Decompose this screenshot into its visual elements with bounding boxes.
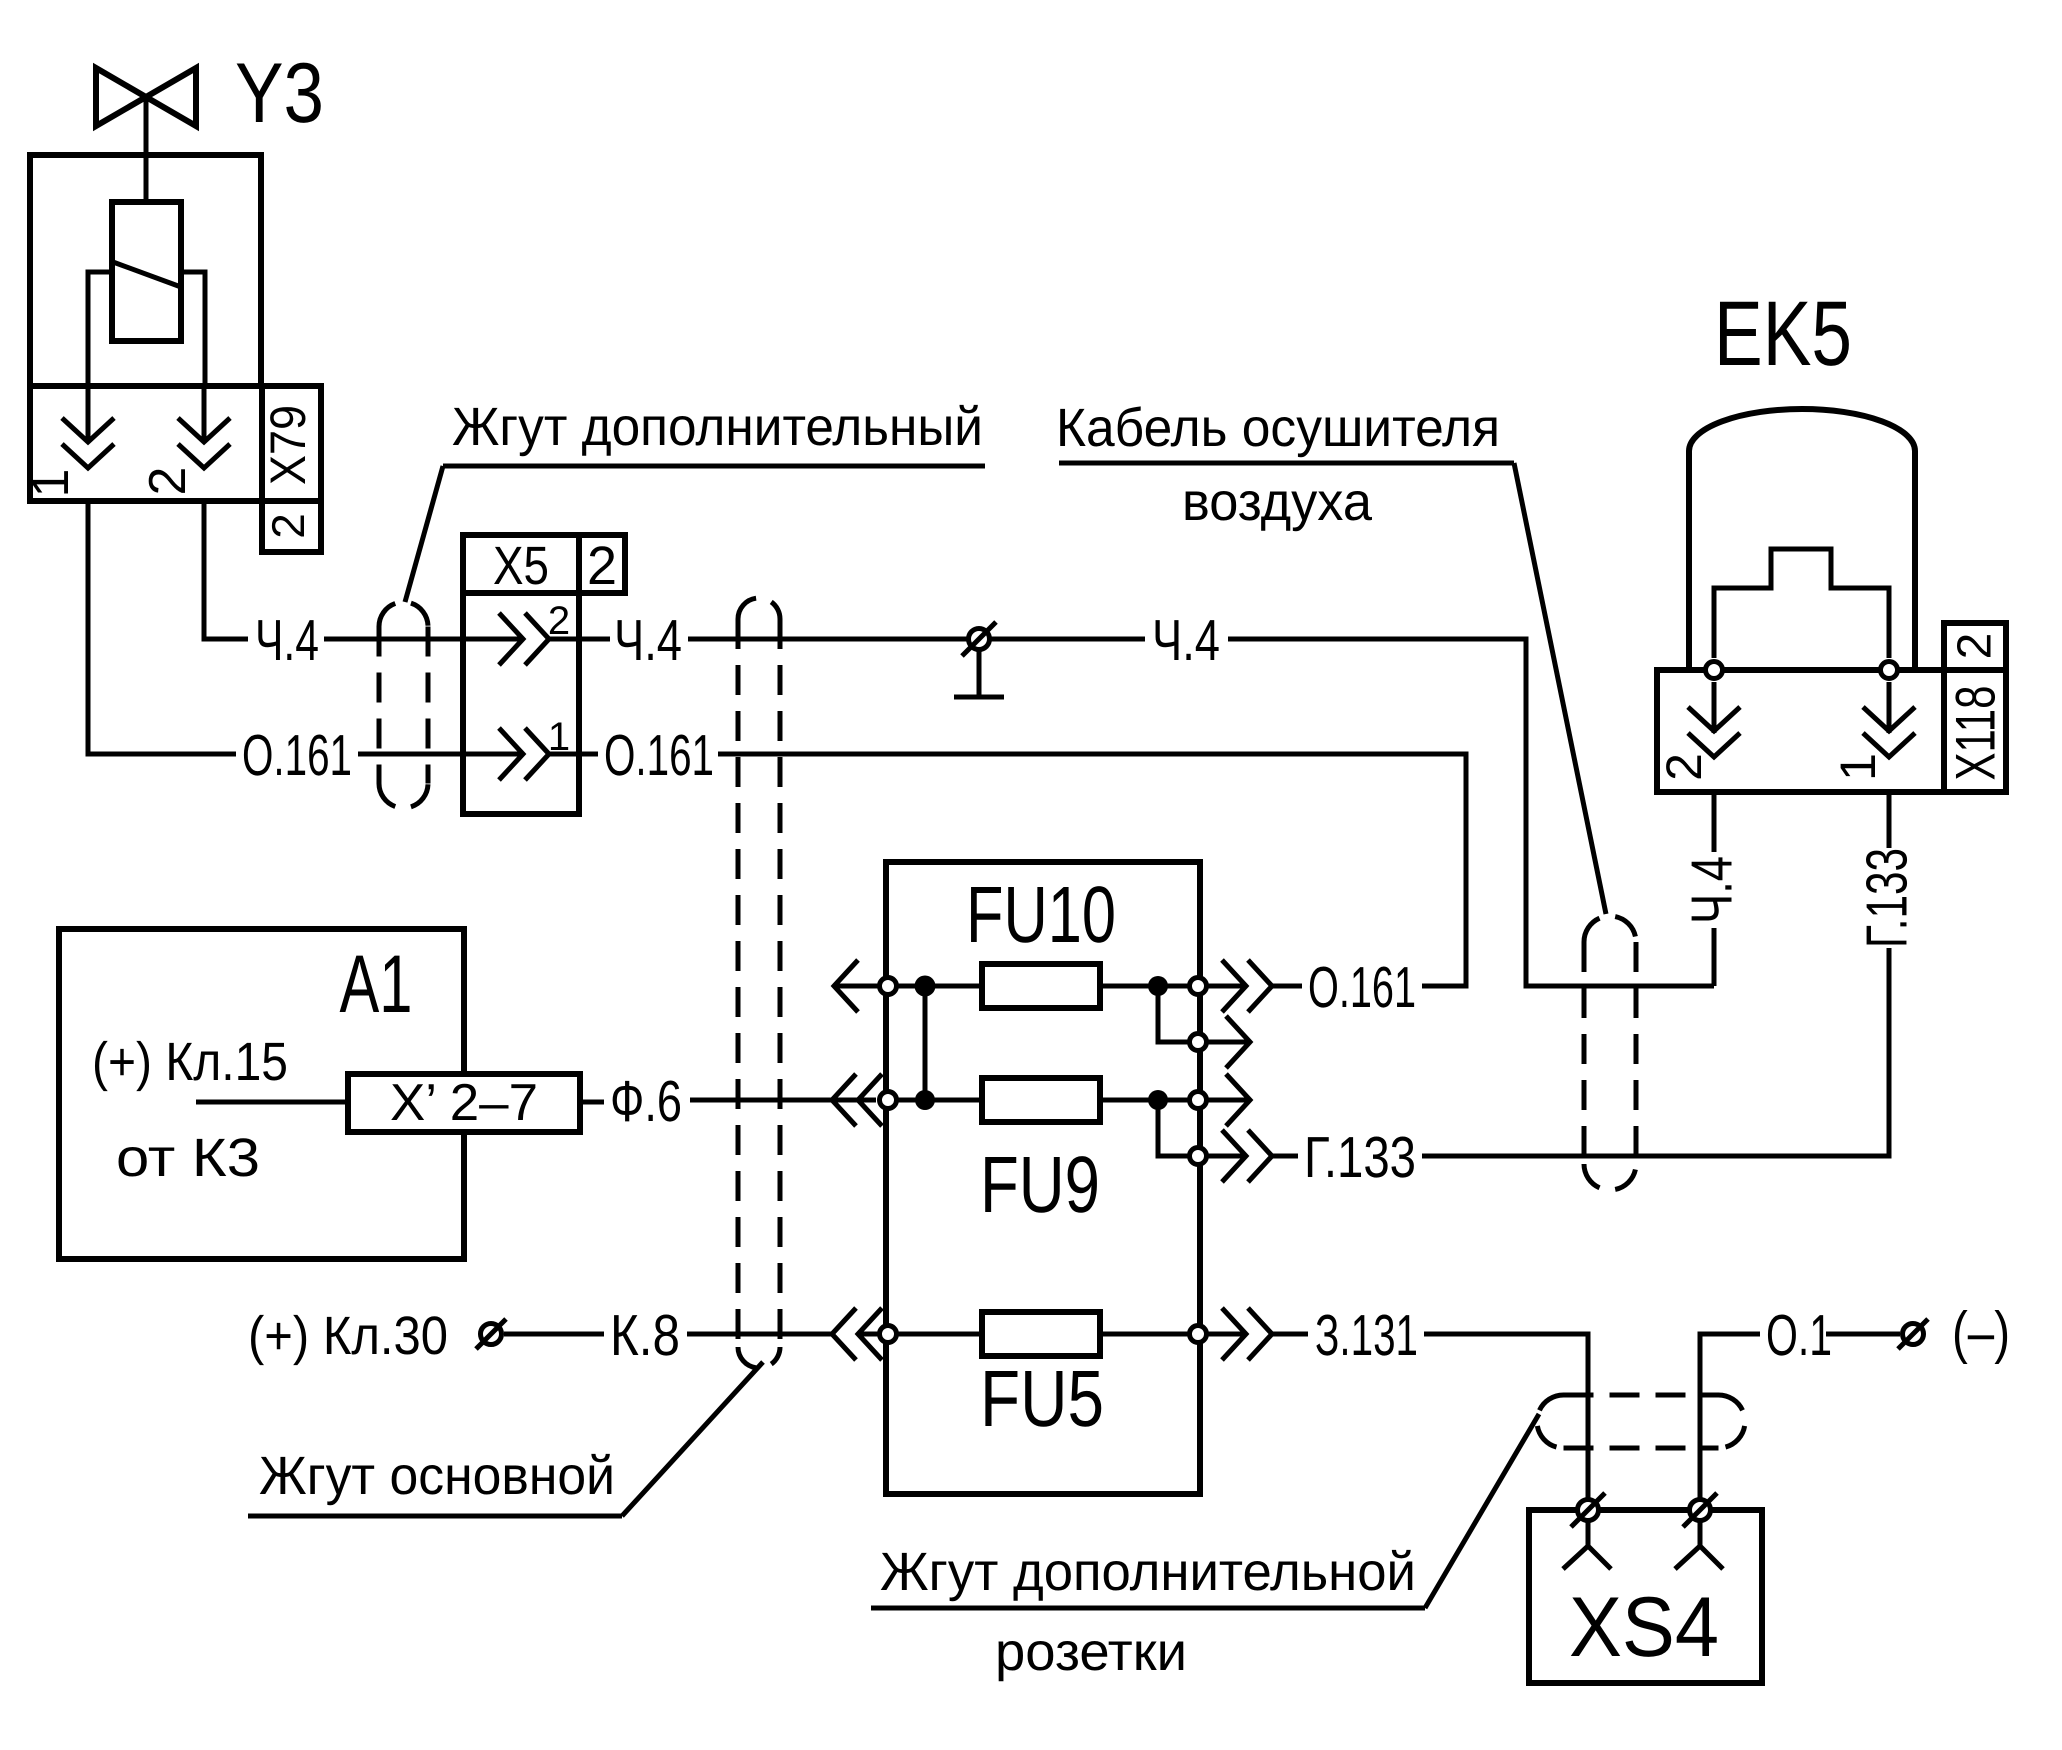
wire X118 pin2 down (net Ч.4) [1712,682,1717,986]
wire net Ч.4 from X5 to corner and X118 [463,639,1714,986]
wire X79 pin1 to X5 (net О.161) [88,386,463,754]
leader line [1514,463,1606,914]
X79 pin 1 [62,418,114,468]
unit A1 box [59,929,464,1259]
svg-text:Ч.4: Ч.4 [1680,856,1745,924]
svg-text:Жгут основной: Жгут основной [259,1446,615,1506]
fuse block box [886,862,1200,1494]
wire net К.8 to FU5 input [504,1332,880,1337]
svg-text:Ч.4: Ч.4 [614,608,682,673]
Y3 body box [30,155,261,386]
main harness oval (Жгут основной) [738,598,780,1368]
svg-text:Ф.6: Ф.6 [610,1069,682,1134]
leader line [1425,1414,1539,1608]
wire net Ф.6 to FU9 input [580,1100,876,1102]
svg-text:Y3: Y3 [235,46,324,141]
svg-text:розетки: розетки [995,1622,1187,1682]
svg-text:2: 2 [139,467,197,496]
svg-text:Г.133: Г.133 [1855,848,1920,948]
socket XS4 box [1529,1510,1762,1683]
svg-text:X5: X5 [493,536,549,596]
XS4 pin 1 [1578,1500,1599,1521]
wire net Г.133 to X118 pin1 [1422,682,1889,1156]
svg-text:X’ 2–7: X’ 2–7 [390,1074,538,1132]
svg-text:2: 2 [262,513,314,539]
connector X118 box [1657,670,1944,792]
svg-text:1: 1 [22,469,80,498]
svg-text:2: 2 [1949,633,2002,660]
svg-text:FU10: FU10 [966,870,1116,959]
X5 pin 1 [499,728,549,780]
valve Y3 symbol [96,68,196,126]
wire valve stem [144,97,149,202]
svg-text:Ч.4: Ч.4 [1152,608,1220,673]
heater element [1714,549,1889,658]
connector X79 box [30,386,321,501]
svg-text:Жгут дополнительной: Жгут дополнительной [880,1542,1416,1602]
svg-text:воздуха: воздуха [1182,472,1373,532]
connector X5 body [463,593,579,814]
svg-text:Г.133: Г.133 [1304,1125,1416,1190]
svg-text:З.131: З.131 [1315,1303,1418,1368]
svg-text:Кабель осушителя: Кабель осушителя [1056,398,1500,458]
fuse FU9 [982,1078,1100,1122]
svg-text:FU5: FU5 [980,1354,1104,1443]
ground chassis on net Ч.4 [969,629,990,650]
svg-text:О.161: О.161 [1308,955,1416,1020]
svg-text:О.161: О.161 [604,723,714,788]
chevrons into FU9 [832,1074,882,1126]
svg-text:К.8: К.8 [610,1303,680,1368]
connector X5 header [463,535,625,593]
elbow output Г.133 [1158,1100,1298,1156]
wire net О.1 from XS4 pin2 to (-) [1700,1334,1900,1498]
X118 pin 2 [1706,662,1723,679]
heater EK5 body dome [1689,409,1915,670]
leader line [405,466,443,602]
harness oval (Жгут дополнительный) [379,602,428,808]
bridge FU10-FU9 inputs [923,986,928,1100]
fuse FU10 [982,964,1100,1008]
connector X' 2-7 [348,1074,580,1132]
elbow spare output A [1158,986,1250,1042]
terminal circle (-) [1903,1324,1924,1345]
svg-text:Жгут дополнительный: Жгут дополнительный [452,397,983,457]
svg-text:1: 1 [1830,753,1886,781]
Y3 solenoid coil [112,202,181,341]
svg-text:EK5: EK5 [1714,283,1852,385]
leader line [622,1362,763,1516]
fuse FU5 row [897,1332,1308,1337]
svg-text:Ч.4: Ч.4 [255,608,319,673]
svg-text:О.1: О.1 [1766,1303,1832,1368]
svg-text:A1: A1 [340,939,413,1030]
X118 pin 1 [1881,662,1898,679]
wire net З.131 to XS4 [1424,1334,1588,1498]
svg-text:(–): (–) [1952,1300,2010,1365]
fuse FU10 row [834,984,1302,989]
svg-text:X79: X79 [260,405,316,485]
svg-text:(+) Кл.15: (+) Кл.15 [92,1032,288,1092]
svg-text:О.161: О.161 [242,723,352,788]
wire X79 pin2 to X5 (net Ч.4) [204,386,463,639]
svg-text:X118: X118 [1944,686,2007,781]
fuse FU5 [982,1312,1100,1356]
air dryer cable oval [1584,916,1636,1190]
svg-text:FU9: FU9 [980,1140,1100,1229]
svg-text:2: 2 [1656,753,1712,781]
chevrons into FU5 [832,1308,882,1360]
terminal circle Кл.30 [481,1324,502,1345]
svg-text:от К3: от К3 [116,1128,260,1188]
svg-text:2: 2 [548,599,570,643]
X79 pin 2 [178,418,230,468]
svg-text:XS4: XS4 [1569,1580,1719,1675]
X5 pin 2 [499,613,549,665]
fuse FU9 row [897,1098,1250,1103]
svg-text:(+) Кл.30: (+) Кл.30 [248,1306,448,1366]
XS4 pin 2 [1690,1500,1711,1521]
wire inside A1 [196,1100,348,1105]
additional socket harness oval [1537,1395,1745,1448]
wire net О.161 from X5 to fuse FU10 output [463,754,1466,986]
svg-text:2: 2 [587,536,617,596]
Y3 coil bracket [88,272,205,386]
